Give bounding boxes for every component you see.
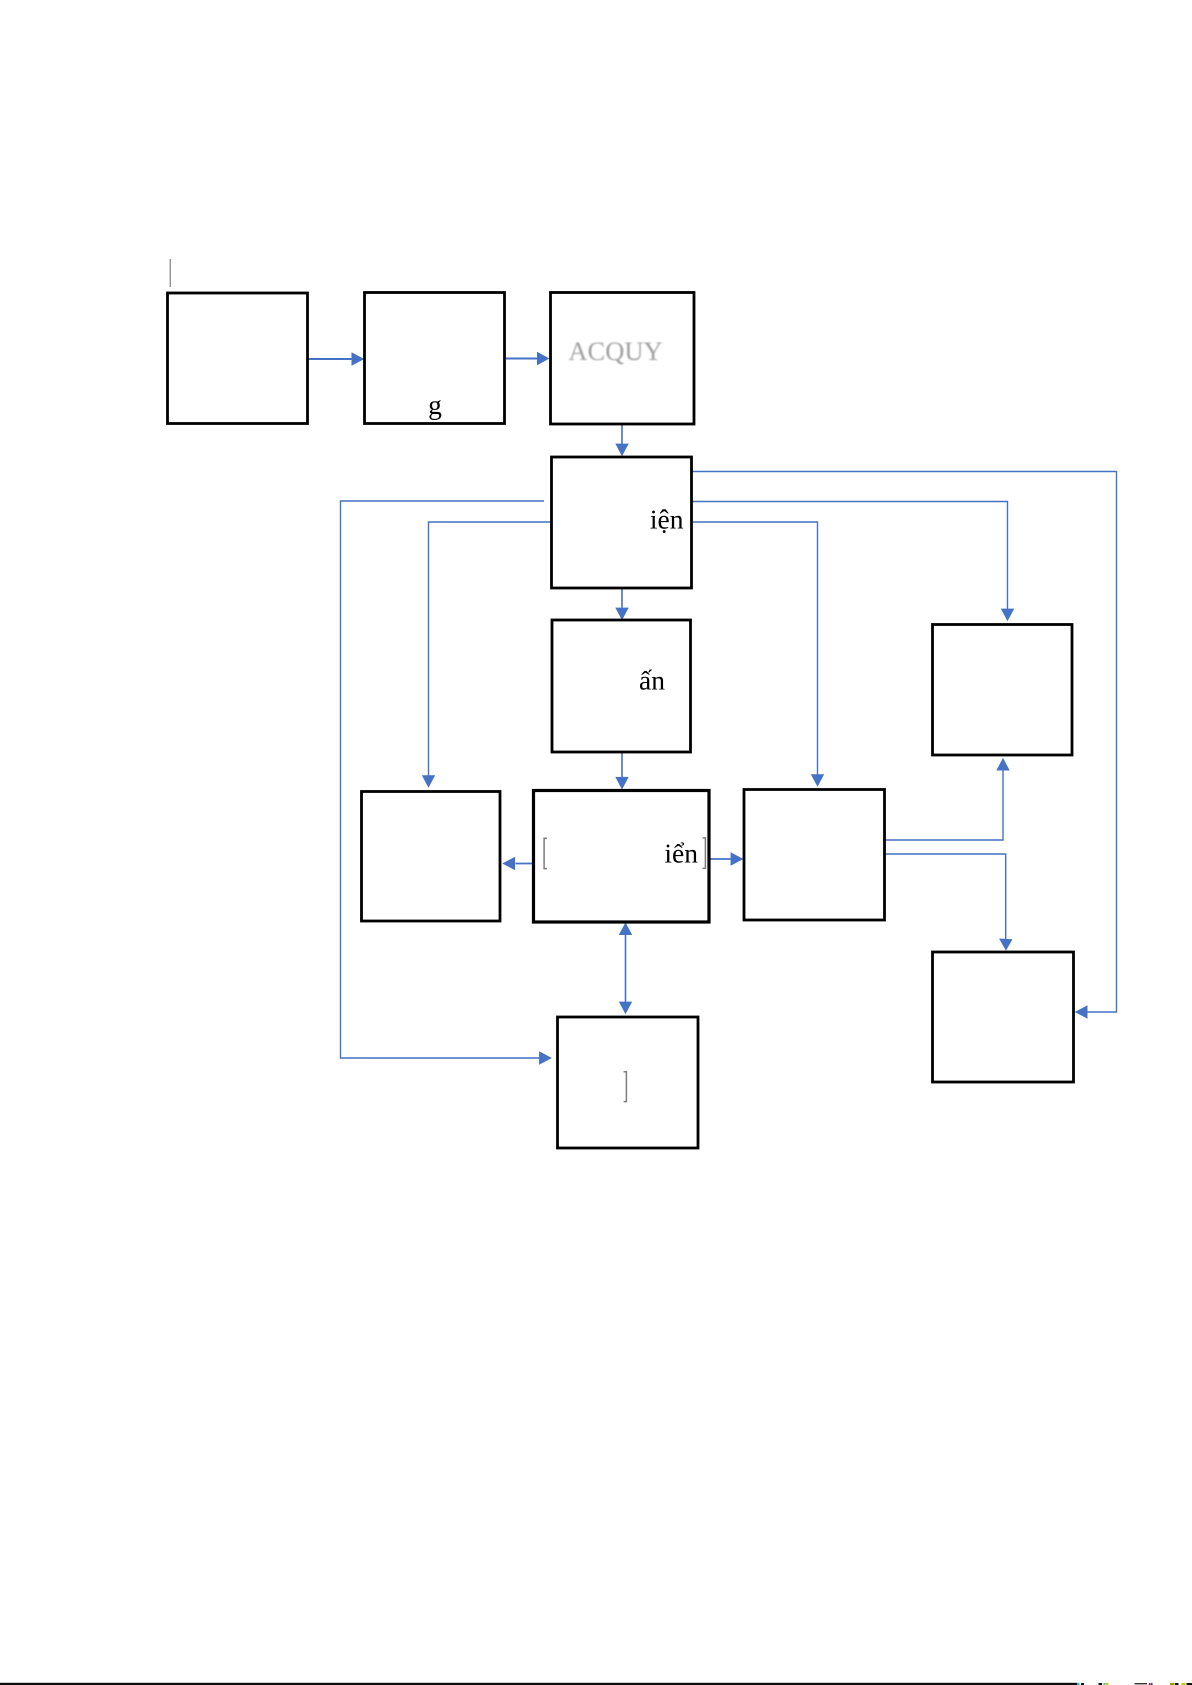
svg-text:g: g <box>428 389 442 420</box>
svg-text:ấn: ấn <box>639 665 665 696</box>
svg-text:ACQUY: ACQUY <box>568 336 662 366</box>
svg-text:iện: iện <box>650 504 684 535</box>
svg-text:iển: iển <box>664 838 698 869</box>
